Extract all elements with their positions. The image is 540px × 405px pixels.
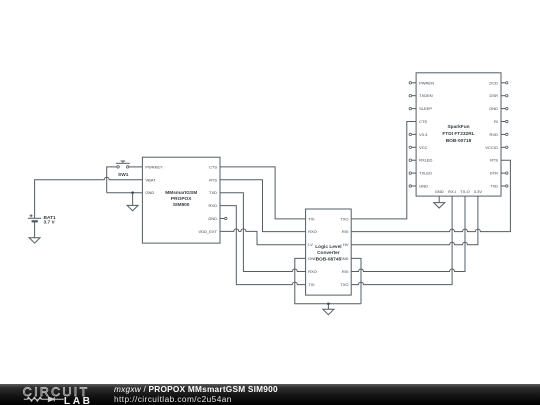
svg-text:LAB: LAB: [64, 396, 93, 405]
svg-text:DSR: DSR: [490, 93, 499, 98]
svg-text:GND: GND: [489, 106, 498, 111]
pin TXD (FTDI, unconnected): [490, 184, 508, 189]
wire LLC GND left wrap-around to bottom: [295, 258, 361, 303]
pin DTR (unconnected): [490, 171, 508, 176]
wire LLC RXI (upper) to FTDI RTS, hops over three verticals: [351, 160, 510, 231]
svg-text:TXD: TXD: [490, 184, 498, 189]
svg-text:GND: GND: [308, 256, 317, 261]
wire junction down to ground: [132, 193, 134, 206]
svg-text:CTS: CTS: [419, 119, 427, 124]
svg-text:RI: RI: [494, 119, 498, 124]
IC module SIM900: MMsmartGSM PROPOX: [142, 157, 220, 243]
svg-text:RXO: RXO: [308, 269, 317, 274]
svg-text:mxgxw / PROPOX MMsmartGSM SIM9: mxgxw / PROPOX MMsmartGSM SIM900: [114, 384, 278, 394]
wire BAT1 positive up and right to VBAT (hop over SW1 ground wire): [35, 177, 143, 218]
svg-text:TX-O: TX-O: [460, 189, 470, 194]
pin GND (FTDI left, unconnected): [409, 184, 428, 189]
wire SIM900 RTS to level converter RXO: [220, 180, 306, 232]
svg-text:RXD: RXD: [490, 132, 499, 137]
pin DCD (unconnected): [489, 80, 508, 85]
wire BAT1 negative to ground: [34, 221, 36, 237]
svg-text:3.3V: 3.3V: [474, 189, 483, 194]
svg-text:RXLED: RXLED: [419, 158, 432, 163]
pin DSR (unconnected): [490, 93, 508, 98]
wire LLC GND right wrap-around to bottom: [351, 258, 361, 303]
svg-text:http://circuitlab.com/c2u54an: http://circuitlab.com/c2u54an: [114, 394, 232, 404]
svg-text:SLEEP: SLEEP: [419, 106, 432, 111]
svg-text:GND: GND: [208, 216, 217, 221]
wire LLC RXI (lower) to FTDI TX-O, hops over GND wrap and RX-I vertical: [351, 196, 465, 271]
svg-text:SW1: SW1: [118, 172, 129, 178]
CircuitLab logo resistor-diode squiggle: [24, 397, 64, 401]
svg-text:GND: GND: [435, 189, 444, 194]
svg-text:GND: GND: [340, 256, 349, 261]
ground below LLC: [323, 309, 334, 314]
IC U1: SparkFun Logic Level Converter BOB-08745: [306, 209, 352, 295]
svg-text:SparkFun: SparkFun: [447, 124, 469, 130]
pin VCC (unconnected): [409, 145, 428, 150]
svg-text:TXD: TXD: [209, 190, 217, 195]
pin GND (SIM900 right, unconnected): [208, 216, 227, 221]
wire SIM900 TXD to level converter RXO (lower), hops over GND wire: [220, 193, 306, 272]
svg-text:V3.3: V3.3: [419, 132, 428, 137]
svg-text:BOB-08745: BOB-08745: [316, 257, 342, 263]
svg-text:CTS: CTS: [209, 164, 217, 169]
wire GND pin of SIM900 to left: [107, 192, 143, 194]
svg-text:FTDI FT232RL: FTDI FT232RL: [442, 131, 474, 137]
svg-text:PROPOX: PROPOX: [171, 196, 192, 202]
wire SW1 right terminal to PWRKEY: [129, 166, 143, 168]
ground below SIM900 GND: [127, 205, 138, 210]
svg-text:LV: LV: [308, 242, 313, 247]
wire SIM900 CTS to level converter TXI: [220, 167, 306, 219]
svg-text:VBAT: VBAT: [145, 177, 156, 182]
svg-text:TXLED: TXLED: [419, 171, 432, 176]
pin V3.3 (unconnected): [409, 132, 428, 137]
svg-text:HV: HV: [343, 242, 349, 247]
svg-text:TXO: TXO: [340, 216, 348, 221]
svg-text:RXD: RXD: [209, 203, 218, 208]
footer black bar: [0, 384, 540, 405]
pin TXLED (unconnected): [409, 171, 432, 176]
svg-text:PWRKEY: PWRKEY: [145, 164, 163, 169]
wire junction to ground symbol: [327, 304, 329, 310]
svg-text:RXI: RXI: [342, 229, 349, 234]
pin RXD (unconnected): [490, 132, 508, 137]
svg-text:DTR: DTR: [490, 171, 498, 176]
svg-text:VCCIO: VCCIO: [485, 145, 498, 150]
wire FTDI GND bottom to ground: [438, 196, 440, 203]
svg-text:VCC: VCC: [419, 145, 428, 150]
ground below BAT1: [29, 238, 40, 243]
wire LLC HV to FTDI 3.3V, hops over two verticals: [351, 196, 478, 245]
node junction below LLC: [327, 303, 330, 306]
svg-text:RX-I: RX-I: [448, 189, 456, 194]
battery BAT1: [28, 214, 56, 225]
svg-text:TXO: TXO: [340, 282, 348, 287]
svg-text:DCD: DCD: [489, 80, 498, 85]
svg-text:TXI: TXI: [308, 282, 314, 287]
wire SIM900 RXD to level converter TXI (lower), hops over GND wire: [220, 206, 306, 285]
wire LLC TXO (upper) to FTDI CTS: [351, 122, 416, 219]
svg-text:3.7 V: 3.7 V: [44, 220, 56, 226]
pin TXDEN (unconnected): [409, 93, 433, 98]
pin GND (FTDI right, unconnected): [489, 106, 508, 111]
switch SW1 (pushbutton): [116, 161, 130, 178]
svg-text:MMsmartGSM: MMsmartGSM: [165, 190, 197, 196]
svg-text:RTS: RTS: [209, 177, 217, 182]
svg-text:BOB-00718: BOB-00718: [446, 138, 472, 144]
svg-text:GND: GND: [419, 184, 428, 189]
svg-text:Logic Level: Logic Level: [315, 244, 341, 250]
pin VCCIO (unconnected): [485, 145, 508, 150]
ground below FTDI: [434, 203, 445, 208]
svg-text:VDD_EXT: VDD_EXT: [199, 229, 218, 234]
svg-text:PWREN: PWREN: [419, 80, 434, 85]
svg-text:TXDEN: TXDEN: [419, 93, 433, 98]
svg-text:GND: GND: [145, 190, 154, 195]
pin RXLED (unconnected): [409, 158, 432, 163]
pin SLEEP (unconnected): [409, 106, 432, 111]
node junction on GND wire: [131, 191, 134, 194]
wire LLC TXO (lower) to FTDI RX-I, hops over GND wrap: [351, 196, 452, 285]
wire SW1 left terminal down to GND net: [107, 167, 117, 193]
svg-text:Converter: Converter: [317, 250, 340, 256]
svg-text:RTS: RTS: [490, 158, 498, 163]
svg-text:RXO: RXO: [308, 229, 317, 234]
svg-text:TXI: TXI: [308, 216, 314, 221]
IC U2: SparkFun FTDI FT232RL BOB-00718: [416, 73, 501, 196]
pin RI (unconnected): [494, 119, 508, 124]
svg-text:SIM900: SIM900: [173, 202, 190, 208]
pin PWREN (unconnected): [409, 80, 434, 85]
wire SIM900 VDD_EXT to level converter LV, hops over TXD and RXD wires: [220, 229, 306, 245]
svg-text:RXI: RXI: [342, 269, 349, 274]
